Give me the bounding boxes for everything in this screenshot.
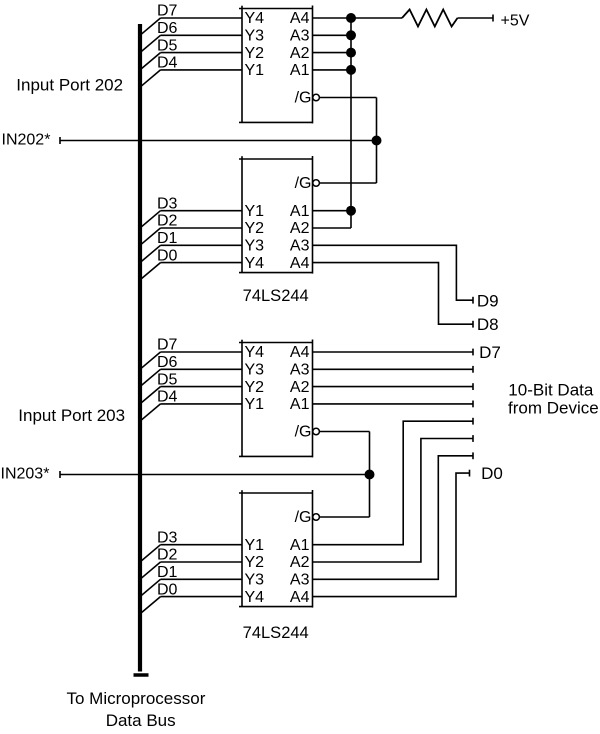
svg-text:Y2: Y2 [245, 45, 265, 62]
terminal tick bit6 [472, 401, 474, 408]
svg-text:D1: D1 [157, 564, 178, 581]
svg-text:from Device: from Device [508, 398, 599, 417]
svg-text:D2: D2 [157, 547, 178, 564]
inverter bubble U4 /G [313, 514, 320, 521]
svg-text:D5: D5 [157, 371, 178, 388]
wire IN203* [60, 474, 370, 476]
svg-text:D7: D7 [157, 337, 178, 354]
svg-text:+5V: +5V [501, 13, 530, 30]
svg-text:Y4: Y4 [245, 255, 265, 272]
terminal tick bit7 [472, 383, 474, 390]
svg-text:Y4: Y4 [245, 589, 265, 606]
svg-text:D7: D7 [157, 3, 178, 20]
svg-text:Y4: Y4 [245, 10, 265, 27]
wire U3 pin A1 to device terminal [313, 403, 473, 405]
buffer U4 74LS244 lower half (Input Port 203) box [239, 490, 313, 608]
resistor R1 pull-up [402, 10, 458, 27]
wire D0 bus stub to U2 Y4 [140, 263, 242, 280]
svg-text:/G: /G [295, 424, 312, 441]
terminal tick D8 [472, 321, 474, 328]
svg-text:A2: A2 [290, 45, 310, 62]
wire D3 bus stub to U4 Y1 [140, 545, 242, 562]
svg-text:Input Port 202: Input Port 202 [16, 75, 123, 94]
wire U2 pin A4 to terminal D8 [313, 263, 473, 325]
terminal tick +5V [492, 15, 494, 22]
svg-text:A4: A4 [290, 10, 310, 27]
wire U4 pin A1 to device terminal [313, 421, 473, 545]
svg-text:Y1: Y1 [245, 396, 265, 413]
wire D7 bus stub to U3 Y4 [140, 352, 242, 369]
wire U4 pin A3 to device terminal [313, 456, 473, 580]
terminal tick bit5 [472, 418, 474, 425]
wire D1 bus stub to U4 Y3 [140, 579, 242, 596]
terminal tick D7 [472, 349, 474, 356]
wire D6 bus stub to U1 Y3 [140, 35, 242, 52]
terminal tick IN202* [59, 137, 61, 144]
svg-text:10-Bit Data: 10-Bit Data [508, 380, 594, 399]
wire U3 /G to enable net [319, 432, 369, 518]
svg-text:A3: A3 [290, 28, 310, 45]
wire U2 pin A2 to pull-up net [313, 227, 352, 229]
junction U1 A2 [346, 48, 356, 58]
wire node to resistor R1 [351, 17, 402, 19]
svg-text:Y3: Y3 [245, 362, 265, 379]
bus: microprocessor data bus [138, 24, 142, 672]
wire D7 bus stub to U1 Y4 [140, 18, 242, 35]
svg-text:D0: D0 [481, 464, 503, 483]
svg-text:Y3: Y3 [245, 28, 265, 45]
terminal tick IN203* [59, 471, 61, 478]
buffer U2 74LS244 lower half (Input Port 202) box [239, 156, 313, 274]
svg-text:/G: /G [295, 175, 312, 192]
svg-text:Y1: Y1 [245, 62, 265, 79]
svg-text:74LS244: 74LS244 [243, 287, 309, 305]
bus bottom end cap [134, 673, 149, 677]
svg-text:A2: A2 [290, 220, 310, 237]
wire U1 pin A2 [313, 52, 352, 54]
wire D6 bus stub to U3 Y3 [140, 369, 242, 386]
svg-text:A1: A1 [290, 537, 310, 554]
svg-text:A1: A1 [290, 396, 310, 413]
wire U1 pin A3 [313, 34, 352, 36]
svg-text:/G: /G [295, 90, 312, 107]
svg-text:D2: D2 [157, 213, 178, 230]
svg-text:D4: D4 [157, 55, 178, 72]
wire resistor R1 to +5V terminal [458, 17, 493, 19]
junction U2 A1 [346, 206, 356, 216]
wire D0 bus stub to U4 Y4 [140, 597, 242, 614]
wire U1 pin A1 [313, 69, 352, 71]
svg-text:Y3: Y3 [245, 572, 265, 589]
svg-text:D8: D8 [477, 315, 499, 334]
inverter bubble U3 /G [313, 428, 320, 435]
terminal tick D0 [469, 470, 471, 477]
terminal tick bit4 [472, 435, 474, 442]
wire pull-up vertical net (A4..A1, U2 A1,A2) [350, 18, 352, 228]
wire D4 bus stub to U3 Y1 [140, 404, 242, 421]
svg-text:A3: A3 [290, 238, 310, 255]
svg-text:Y2: Y2 [245, 554, 265, 571]
svg-text:A1: A1 [290, 62, 310, 79]
svg-text:Y1: Y1 [245, 537, 265, 554]
wire D5 bus stub to U1 Y2 [140, 53, 242, 70]
svg-text:D0: D0 [157, 247, 178, 264]
wire D2 bus stub to U4 Y2 [140, 562, 242, 579]
svg-text:D5: D5 [157, 37, 178, 54]
inverter bubble U1 /G [313, 94, 320, 101]
svg-text:A4: A4 [290, 344, 310, 361]
wire U4 /G to enable net [319, 516, 369, 518]
svg-text:A2: A2 [290, 379, 310, 396]
terminal tick bit8 [472, 366, 474, 373]
svg-text:A3: A3 [290, 362, 310, 379]
wire D1 bus stub to U2 Y3 [140, 245, 242, 262]
svg-text:IN202*: IN202* [2, 132, 51, 149]
wire D2 bus stub to U2 Y2 [140, 228, 242, 245]
svg-text:74LS244: 74LS244 [243, 624, 309, 642]
svg-text:D6: D6 [157, 20, 178, 37]
buffer U1 74LS244 upper half (Input Port 202) box [239, 6, 313, 124]
svg-text:D1: D1 [157, 230, 178, 247]
wire U2 /G to enable net [319, 182, 376, 184]
wire IN202* [60, 140, 377, 142]
svg-text:IN203*: IN203* [1, 466, 50, 483]
wire U1 pin A4 to pull-up node [313, 17, 352, 19]
svg-text:D7: D7 [479, 343, 501, 362]
junction U1 A3 [346, 30, 356, 40]
svg-text:/G: /G [295, 509, 312, 526]
junction U1 A4 [346, 13, 356, 23]
junction U1 A1 [346, 65, 356, 75]
wire U4 pin A4 to terminal D0 [313, 473, 470, 596]
svg-text:D6: D6 [157, 354, 178, 371]
svg-text:A4: A4 [290, 589, 310, 606]
wire U2 pin A1 to pull-up net [313, 210, 352, 212]
svg-text:D0: D0 [157, 581, 178, 598]
svg-text:Y4: Y4 [245, 344, 265, 361]
terminal tick bit3 [472, 452, 474, 459]
inverter bubble U2 /G [313, 180, 320, 187]
junction IN203* enable net [365, 470, 375, 480]
svg-text:A2: A2 [290, 554, 310, 571]
svg-text:D3: D3 [157, 529, 178, 546]
wire U1 /G to enable net [319, 98, 376, 184]
svg-text:Data Bus: Data Bus [106, 711, 176, 730]
svg-text:D9: D9 [477, 291, 499, 310]
wire U3 pin A3 to device terminal [313, 368, 473, 370]
wire D5 bus stub to U3 Y2 [140, 387, 242, 404]
svg-text:Y1: Y1 [245, 203, 265, 220]
svg-text:Y2: Y2 [245, 220, 265, 237]
terminal tick D9 [472, 297, 474, 304]
svg-text:Input Port 203: Input Port 203 [18, 406, 125, 425]
svg-text:D4: D4 [157, 389, 178, 406]
buffer U3 74LS244 upper half (Input Port 203) box [239, 340, 313, 458]
svg-text:To Microprocessor: To Microprocessor [67, 689, 206, 708]
wire U3 pin A4 to terminal D7 [313, 351, 473, 353]
wire U2 pin A3 to terminal D9 [313, 245, 473, 300]
wire U3 pin A2 to device terminal [313, 386, 473, 388]
wire U4 pin A2 to device terminal [313, 439, 473, 563]
wire D3 bus stub to U2 Y1 [140, 211, 242, 228]
svg-text:A4: A4 [290, 255, 310, 272]
junction IN202* enable net [372, 136, 382, 146]
svg-text:D3: D3 [157, 195, 178, 212]
svg-text:Y3: Y3 [245, 238, 265, 255]
wire D4 bus stub to U1 Y1 [140, 70, 242, 87]
svg-text:Y2: Y2 [245, 379, 265, 396]
svg-text:A1: A1 [290, 203, 310, 220]
svg-text:A3: A3 [290, 572, 310, 589]
